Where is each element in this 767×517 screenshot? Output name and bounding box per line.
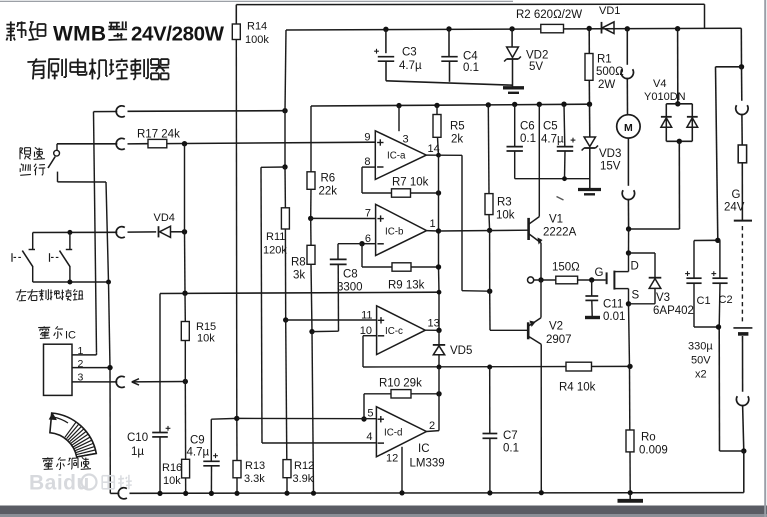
svg-text:VD5: VD5 xyxy=(450,345,472,357)
capacitor C4 xyxy=(448,29,450,57)
svg-text:9: 9 xyxy=(364,132,370,144)
svg-text:1: 1 xyxy=(78,345,84,357)
node VD2 top xyxy=(509,26,514,31)
brake right actuator dashes xyxy=(49,253,51,262)
brake switch right xyxy=(67,230,72,235)
svg-text:R11: R11 xyxy=(266,231,285,243)
label hall speed control xyxy=(42,457,53,459)
node R3 rail mid xyxy=(487,289,492,294)
zener diode VD3 15V xyxy=(589,104,591,137)
ground below VD3 xyxy=(578,188,601,191)
svg-text:C7: C7 xyxy=(503,430,518,442)
svg-text:V2: V2 xyxy=(549,321,563,333)
ground below VD2 xyxy=(503,86,524,89)
hall pin 1 xyxy=(72,354,97,356)
brake left actuator dashes xyxy=(11,253,13,262)
svg-text:50V: 50V xyxy=(691,355,711,367)
svg-text:500Ω: 500Ω xyxy=(596,66,624,78)
svg-text:4.7µ: 4.7µ xyxy=(399,60,422,72)
arrow on pin3 wire xyxy=(132,379,139,382)
svg-text:G: G xyxy=(732,189,741,201)
svg-text:3k: 3k xyxy=(293,270,305,282)
svg-text:x2: x2 xyxy=(695,369,707,381)
wire: jog to C1/C2 bottom rail xyxy=(720,450,744,452)
wire: bridge bottom to drain rail xyxy=(678,141,680,229)
resistor R12 3.9k xyxy=(283,460,291,478)
test point O xyxy=(528,277,534,283)
node R7 right xyxy=(436,190,441,195)
svg-text:R12: R12 xyxy=(294,460,314,472)
node bus/R15 rail xyxy=(182,291,187,296)
node R1 top xyxy=(587,26,592,31)
wire: motor rail lower xyxy=(627,138,629,186)
node C4 top xyxy=(446,26,451,31)
hall pin 3 xyxy=(72,381,117,383)
wire: V1 collector to supply rail xyxy=(538,104,540,216)
svg-text:2W: 2W xyxy=(598,79,615,91)
diode V3 6AP402 (freewheel) xyxy=(629,252,656,254)
wire: IC-a pin 8 lead xyxy=(362,166,375,168)
svg-text:R8: R8 xyxy=(291,257,306,269)
node pin6/C8 xyxy=(359,241,364,246)
node R1 bottom xyxy=(587,102,592,107)
svg-text:330µ: 330µ xyxy=(688,341,713,353)
node pin7/R6/R8 xyxy=(308,216,313,221)
node V1 base xyxy=(487,228,492,233)
svg-text:C8: C8 xyxy=(343,269,358,281)
svg-text:V4: V4 xyxy=(653,78,666,90)
svg-text:6AP402: 6AP402 xyxy=(653,305,694,317)
svg-text:3.9k: 3.9k xyxy=(293,473,314,485)
svg-text:4: 4 xyxy=(366,431,372,443)
capacitor C5 xyxy=(563,104,566,146)
connector top-left xyxy=(116,106,125,117)
wire: IC-c output node 13 xyxy=(425,329,439,331)
node source/V3 xyxy=(626,301,631,306)
wire: pin6 lead xyxy=(362,243,376,245)
wire: V2 base lead xyxy=(490,329,528,331)
scan top edge line xyxy=(0,0,513,2)
svg-text:IC: IC xyxy=(65,330,76,342)
wire: pin7 lead from R6/R8 node xyxy=(311,217,376,219)
svg-text:VD1: VD1 xyxy=(599,5,620,17)
node emitter/gate-resistor junction xyxy=(538,277,543,282)
svg-text:V1: V1 xyxy=(549,214,563,226)
svg-text:3300: 3300 xyxy=(337,282,363,294)
wire: IC-b output to V1 base xyxy=(427,230,439,232)
wire: regulated supply rail y~105 xyxy=(311,104,590,106)
node battery/C-rail junction xyxy=(739,64,744,69)
wire: IC-b out to V1 base xyxy=(439,229,528,232)
motor M xyxy=(617,115,640,138)
node C11 top xyxy=(589,277,594,282)
node 5V rail joins y111 xyxy=(282,108,287,113)
svg-text:LM339: LM339 xyxy=(410,458,445,470)
op-amp IC-d xyxy=(376,407,426,457)
wire: source to sense xyxy=(628,289,630,304)
wire: C1/C2 bottom rail xyxy=(694,326,719,328)
resistor R3 10k xyxy=(487,105,490,194)
wire: 5V feed to hall, y~111 xyxy=(94,111,118,113)
wire: output rail VD5 to IC-d out xyxy=(438,367,440,394)
wire: R3 rail to V2 base corner xyxy=(489,230,491,291)
svg-text:24V/280W: 24V/280W xyxy=(131,23,225,46)
wire: brake bottom wire xyxy=(33,281,109,283)
connector lower battery rail xyxy=(736,396,748,405)
connector on ground bus xyxy=(118,488,127,499)
capacitor C7 0.1 xyxy=(489,367,491,433)
node y367 at drain sense xyxy=(627,364,632,369)
wire: IC-d output 2 xyxy=(426,430,439,433)
svg-text:0.01: 0.01 xyxy=(603,311,625,323)
svg-text:5V: 5V xyxy=(529,61,543,73)
wire: right rail to bottom bus xyxy=(743,451,745,493)
wire: C1/C2 top rail xyxy=(694,239,718,241)
node R5 top xyxy=(434,103,439,108)
op-amp IC-c xyxy=(377,306,426,355)
wire: ground rail left (switch/brake/hall gnd) xyxy=(109,282,111,368)
ground symbol under Ro xyxy=(629,493,631,500)
node V3 anode top xyxy=(626,250,631,255)
resistor R6 22k xyxy=(307,172,315,190)
capacitor C3 xyxy=(385,29,387,53)
wire: C10 rail xyxy=(159,294,161,433)
svg-text:0.1: 0.1 xyxy=(463,62,479,74)
node R3 top xyxy=(486,102,491,107)
svg-text:1: 1 xyxy=(430,218,436,230)
svg-text:Ro: Ro xyxy=(641,432,656,444)
svg-text:VD2: VD2 xyxy=(526,50,548,62)
scan bottom gray band xyxy=(0,506,767,515)
wire: brake top wire y~232.5 xyxy=(33,231,118,233)
svg-text:R4 10k: R4 10k xyxy=(559,382,596,394)
svg-text:10k: 10k xyxy=(197,333,215,345)
wire: rail down to R12 xyxy=(286,320,287,460)
wire: IC-a pin 3 supply lead xyxy=(398,106,400,132)
wire: battery + rail right side xyxy=(740,28,742,67)
svg-text:3.3k: 3.3k xyxy=(244,473,265,485)
svg-text:R6: R6 xyxy=(321,173,336,185)
fuse on battery rail xyxy=(738,145,746,163)
svg-text:2: 2 xyxy=(429,420,435,432)
svg-text:VD4: VD4 xyxy=(154,212,175,224)
svg-text:120k: 120k xyxy=(263,245,287,257)
resistor R15 10k xyxy=(184,293,186,321)
wire: drain rail xyxy=(628,229,630,253)
zener diode VD2 5V xyxy=(511,29,513,47)
bus junction dots xyxy=(157,491,162,496)
ground below C11 xyxy=(585,316,600,319)
capacitor C6 xyxy=(514,104,516,146)
wire: top +24V rail from R14 to right xyxy=(236,3,704,5)
wire: pin12 to ground bus xyxy=(401,447,403,493)
wire: R17/VD4/R15 rail xyxy=(184,144,186,232)
wire: C3/C4 bottoms to VD2 ground xyxy=(386,81,513,85)
node V1 collector rail xyxy=(537,102,542,107)
wire: switch to ground rail xyxy=(58,181,107,183)
wire: throttle RC node to pin5 wire xyxy=(211,417,237,420)
svg-text:IC-d: IC-d xyxy=(384,428,403,439)
svg-text:R9 13k: R9 13k xyxy=(388,280,425,292)
svg-text:4.7µ: 4.7µ xyxy=(541,134,564,146)
svg-text:4.7µ: 4.7µ xyxy=(187,447,210,459)
wire: 5V rail x~286 (from y30 corner down) xyxy=(285,30,286,111)
svg-text:150Ω: 150Ω xyxy=(552,262,580,274)
wire: R6/R8 rail top corner xyxy=(310,106,312,172)
capacitor C2 330u xyxy=(719,240,721,278)
wire: throttle line y~144 xyxy=(57,143,117,145)
wire: pin4 lead from reference rail xyxy=(262,442,376,444)
svg-text:R3: R3 xyxy=(497,197,512,209)
svg-text:IC: IC xyxy=(418,443,430,455)
connector above motor xyxy=(621,69,633,78)
svg-text:IC-a: IC-a xyxy=(387,151,406,162)
svg-text:24V: 24V xyxy=(724,202,745,214)
node jog to pin4 rail xyxy=(282,164,287,169)
svg-text:R1: R1 xyxy=(597,54,612,66)
arrow on fan xyxy=(53,417,68,423)
resistor R8 3k xyxy=(310,218,312,245)
wire: bias bus y~293 xyxy=(160,292,439,293)
svg-text:C5: C5 xyxy=(543,121,558,133)
title line 1: Xin Xu WMB model 24V/280W xyxy=(6,24,15,26)
resistor Ro 0.009 xyxy=(626,430,634,452)
svg-text:R14: R14 xyxy=(247,21,267,33)
capacitor C8 3300 xyxy=(338,243,362,245)
node bridge rail top xyxy=(675,26,680,31)
svg-text:C11: C11 xyxy=(603,299,623,311)
diode VD5 xyxy=(438,330,440,344)
svg-text:3: 3 xyxy=(78,372,84,384)
wire: comparator output rail x~438.5 xyxy=(438,155,440,193)
brake switch left xyxy=(32,233,34,250)
node R9 right xyxy=(436,264,441,269)
resistor R1 500ohm 2W xyxy=(588,29,590,54)
hall pin 2 xyxy=(72,367,110,369)
svg-text:C3: C3 xyxy=(402,47,417,59)
node C8 return xyxy=(309,329,314,334)
svg-text:C9: C9 xyxy=(190,435,205,447)
node R10/pin5 xyxy=(361,416,366,421)
svg-text:R10 29k: R10 29k xyxy=(379,378,422,390)
svg-text:12: 12 xyxy=(386,453,398,465)
svg-text:100k: 100k xyxy=(245,34,269,46)
svg-text:C10: C10 xyxy=(127,432,148,444)
svg-text:8: 8 xyxy=(364,156,370,168)
svg-text:R15: R15 xyxy=(196,321,216,333)
node drain rail top xyxy=(626,226,631,231)
svg-text:IC-b: IC-b xyxy=(385,227,404,238)
wire: bottom ground bus xyxy=(110,492,119,494)
node bottom right xyxy=(741,448,746,453)
bridge diode left xyxy=(661,116,672,118)
resistor R14 xyxy=(235,5,237,24)
resistor R11 120k xyxy=(284,167,286,208)
transistor V2 2907 (PNP) xyxy=(527,322,530,339)
wire: R14 rail down to throttle filter xyxy=(235,40,238,419)
svg-text:2907: 2907 xyxy=(546,334,572,346)
svg-text:0.009: 0.009 xyxy=(639,445,668,457)
svg-text:C1: C1 xyxy=(697,295,711,307)
resistor R5 2k xyxy=(436,105,438,114)
wire: pin11 lead xyxy=(286,319,377,321)
wire: IC-a output xyxy=(426,154,438,156)
resistor R13 3.3k xyxy=(236,418,238,460)
capacitor C1 330u xyxy=(693,241,695,278)
capacitor C9 4.7u xyxy=(210,419,212,461)
node VD4 cathode xyxy=(182,229,187,234)
svg-text:C2: C2 xyxy=(719,294,733,306)
node C5 top xyxy=(561,102,566,107)
svg-text:10k: 10k xyxy=(496,210,515,222)
resistor R4 10k (on y367 wire) xyxy=(566,362,592,371)
node R17/VD4 rail xyxy=(182,141,187,146)
svg-text:R7 10k: R7 10k xyxy=(392,177,429,189)
svg-text:5: 5 xyxy=(367,408,373,420)
hall throttle fan symbol xyxy=(50,413,96,457)
svg-text:R5: R5 xyxy=(450,121,465,133)
stray scan mark xyxy=(557,197,564,201)
svg-text:13: 13 xyxy=(428,318,440,330)
svg-text:R16: R16 xyxy=(162,462,182,474)
op-amp IC-b xyxy=(376,204,427,255)
label: left/right brake lever buttons xyxy=(16,291,27,294)
wire: IC-a out to V2 base rail x~462 xyxy=(439,154,463,156)
svg-text:15V: 15V xyxy=(600,161,621,173)
svg-text:C4: C4 xyxy=(463,51,478,63)
capacitor C11 0.01 xyxy=(591,280,593,296)
node IC-a pin3 xyxy=(396,103,401,108)
wire: 5V/supply horizontal rail y~28.7 xyxy=(286,28,741,30)
throttle speed-limit switch xyxy=(56,144,58,151)
svg-text:2k: 2k xyxy=(451,134,463,146)
node C6 top xyxy=(512,102,517,107)
svg-text:V3: V3 xyxy=(656,292,670,304)
svg-text:G: G xyxy=(595,267,604,279)
svg-text:2222A: 2222A xyxy=(543,227,577,239)
wire: pin10 lead xyxy=(363,335,377,337)
svg-text:Y010DN: Y010DN xyxy=(644,91,686,103)
node C3 top xyxy=(383,27,388,32)
node R15 bottom xyxy=(183,379,188,384)
svg-text:D: D xyxy=(631,261,639,273)
wire: jog to C1/C2 top rail xyxy=(716,66,742,68)
scan right edge line xyxy=(764,0,766,517)
wire: pin4 reference rail x~261 xyxy=(261,167,262,443)
wire: C6/C5 bottoms to ground rail xyxy=(515,178,590,180)
svg-text:C6: C6 xyxy=(520,121,535,133)
wire: feedback bus y~367 xyxy=(363,365,630,368)
wire: motor rail upper xyxy=(626,29,628,65)
svg-text:0.1: 0.1 xyxy=(503,443,519,455)
title line 2: brushed motor controller xyxy=(27,60,46,63)
wire: jog to pin4 rail xyxy=(261,166,285,168)
connector on battery rail xyxy=(741,67,743,101)
svg-text:S: S xyxy=(632,290,640,302)
wire: pin5 lead from throttle RC xyxy=(237,417,377,419)
svg-text:R2 620Ω/2W: R2 620Ω/2W xyxy=(516,9,582,21)
wire: hall VCC rail down left xyxy=(94,112,97,353)
capacitor C10 1u xyxy=(152,432,168,434)
svg-text:2: 2 xyxy=(78,358,84,370)
connector throttle xyxy=(116,138,125,149)
svg-text:0.1: 0.1 xyxy=(520,133,536,145)
resistor R16 10k xyxy=(184,382,186,460)
wire: source rail down to Ro xyxy=(629,304,630,367)
node motor rail top xyxy=(625,26,630,31)
svg-text:IC-c: IC-c xyxy=(385,326,403,337)
svg-text:R13: R13 xyxy=(245,460,265,472)
svg-text:7: 7 xyxy=(365,208,371,220)
svg-text:10k: 10k xyxy=(163,475,181,487)
svg-text:22k: 22k xyxy=(319,186,338,198)
op-amp IC-a xyxy=(375,131,426,180)
bridge diode right xyxy=(687,116,698,118)
connector brake/VD4 xyxy=(116,227,125,238)
svg-text:VD3: VD3 xyxy=(599,148,621,160)
label hall IC xyxy=(38,326,50,328)
wire: V2 collector to ground bus xyxy=(540,344,542,493)
svg-text:WMB: WMB xyxy=(53,23,106,46)
connector hall pin 3 xyxy=(116,376,125,387)
hall IC box xyxy=(44,344,73,395)
node pin11 takeoff xyxy=(283,317,288,322)
label: speed-limit / cruise xyxy=(19,148,21,160)
svg-text:M: M xyxy=(624,122,633,134)
transistor V1 2222A (NPN) xyxy=(527,218,530,240)
svg-text:1µ: 1µ xyxy=(131,446,144,458)
connector below motor xyxy=(622,190,634,199)
wire: V1 emitter rail down xyxy=(540,243,542,280)
node IC-b out xyxy=(436,228,441,233)
